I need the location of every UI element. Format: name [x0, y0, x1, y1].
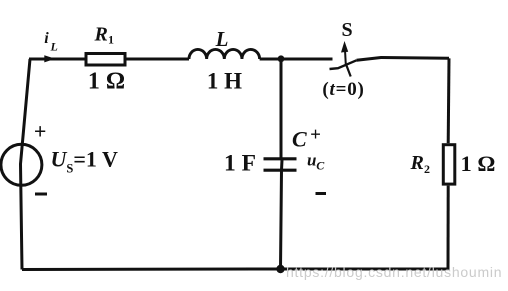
- svg-text:+: +: [34, 119, 47, 144]
- svg-text:L: L: [50, 40, 58, 54]
- label iL: [44, 30, 58, 53]
- current arrow iL: [44, 55, 55, 62]
- switch S lower stub: [346, 65, 350, 77]
- svg-text:US=1 V: US=1 V: [51, 146, 118, 175]
- svg-text:C: C: [316, 159, 325, 173]
- wire switch to top right corner: [357, 58, 450, 61]
- node B junction dot (bottom middle): [276, 265, 284, 273]
- svg-text:R: R: [410, 152, 424, 174]
- inductor L: [189, 49, 260, 59]
- capacitor C top plate: [264, 157, 297, 160]
- svg-text:1 Ω: 1 Ω: [461, 151, 496, 176]
- wire capacitor branch lower: [281, 160, 283, 269]
- svg-text:L: L: [215, 27, 229, 51]
- label uC: [307, 150, 325, 172]
- svg-text:C: C: [292, 126, 307, 151]
- capacitor minus sign: [316, 192, 327, 195]
- svg-text:i: i: [44, 30, 49, 47]
- resistor R2: [443, 145, 455, 184]
- svg-text:S: S: [341, 19, 352, 41]
- wire bottom: [22, 268, 448, 272]
- svg-text:1 Ω: 1 Ω: [88, 69, 125, 95]
- wire capacitor branch upper: [280, 59, 283, 160]
- label R1: [94, 24, 115, 47]
- svg-text:u: u: [307, 150, 316, 169]
- svg-text:1: 1: [108, 33, 114, 47]
- svg-text:1 H: 1 H: [207, 68, 242, 93]
- svg-text:2: 2: [424, 162, 430, 176]
- wire R1 to L: [127, 58, 190, 61]
- svg-text:https://blog.csdn.net/lushoumi: https://blog.csdn.net/lushoumin: [286, 264, 502, 280]
- svg-text:+: +: [310, 124, 321, 145]
- node A junction dot (top middle): [278, 55, 285, 62]
- wire right vertical lower: [447, 186, 450, 271]
- svg-text:R: R: [94, 24, 108, 46]
- voltage source US circle: [1, 144, 42, 185]
- source minus sign: [35, 193, 47, 196]
- resistor R1: [86, 54, 125, 66]
- wire L to switch: [260, 58, 333, 61]
- switch S blade: [330, 60, 357, 69]
- svg-text:(t=0): (t=0): [322, 79, 364, 100]
- capacitor C bottom plate: [264, 169, 297, 172]
- wire right vertical upper: [447, 58, 451, 143]
- svg-text:1 F: 1 F: [224, 151, 256, 177]
- label R2: [410, 152, 431, 176]
- switch S closing arrow: [341, 41, 348, 65]
- wire left vertical: [21, 59, 31, 270]
- wire top left segment: [29, 58, 85, 61]
